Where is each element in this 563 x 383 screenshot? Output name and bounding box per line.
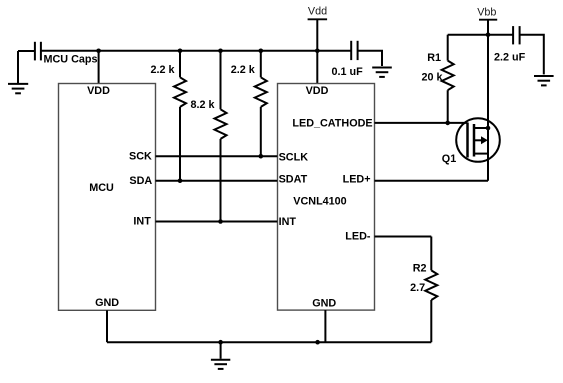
power symbol Vdd (308, 19, 328, 51)
junction dot bus/VCNL (315, 340, 320, 345)
junction dot rail/MCU-VDD (96, 49, 101, 54)
resistor 2.2k (right pull-up) (255, 51, 267, 156)
svg-text:2.2 k: 2.2 k (150, 64, 175, 76)
wire ground to capacitor MCU Caps (18, 50, 35, 52)
capacitor C3 2.2 uF (513, 26, 544, 74)
wire top Vdd rail (41, 50, 351, 52)
svg-text:SCK: SCK (129, 150, 152, 162)
svg-text:GND: GND (95, 297, 119, 309)
wire INT net (156, 221, 278, 223)
ground GND-bottom (211, 342, 230, 369)
svg-text:Q1: Q1 (442, 153, 456, 165)
wire MCU GND drop (106, 310, 108, 342)
ground GND-left (top-left) (8, 51, 28, 93)
junction dot rail/R-2.2k-b (259, 49, 264, 54)
svg-text:SDAT: SDAT (279, 174, 308, 186)
junction dot INT/8.2k (218, 219, 223, 224)
svg-text:SDA: SDA (129, 175, 152, 187)
junction dot Q1 drain stub (486, 126, 491, 131)
svg-text:R1: R1 (427, 52, 441, 64)
junction dot SDA/2.2k (178, 178, 183, 183)
svg-text:LED-: LED- (345, 231, 371, 243)
wire ground bus (107, 341, 431, 343)
junction dot bus/ground-symbol (218, 340, 223, 345)
power symbol Vbb (479, 20, 497, 35)
svg-text:SCLK: SCLK (279, 151, 309, 163)
svg-text:R2: R2 (413, 263, 427, 275)
junction dot rail/Vdd (315, 49, 320, 54)
svg-text:0.1 uF: 0.1 uF (332, 66, 364, 78)
wire Vbb rail (448, 34, 513, 36)
junction dot rail/R-2.2k-a (178, 49, 183, 54)
ground GND-2.2uF (534, 76, 554, 85)
ground GND-0.1uF (372, 68, 392, 77)
wire MCU VDD drop (98, 51, 100, 84)
transistor Q1 (MOSFET) (456, 118, 500, 162)
svg-text:8.2 k: 8.2 k (191, 99, 216, 111)
svg-text:LED_CATHODE: LED_CATHODE (292, 118, 372, 130)
svg-text:MCU Caps: MCU Caps (44, 53, 98, 65)
junction dot Vbb rail (486, 32, 491, 37)
wire LED- net (375, 236, 432, 238)
MCU block U1 (59, 84, 156, 311)
wire VCNL VDD drop (316, 51, 318, 84)
wire VCNL GND drop (324, 310, 326, 342)
svg-text:GND: GND (312, 298, 336, 310)
svg-text:2.2 uF: 2.2 uF (494, 52, 526, 64)
wire LED_CATHODE to gate (375, 122, 468, 124)
resistor 2.2k (left pull-up) (174, 51, 186, 181)
svg-text:2.2 k: 2.2 k (231, 64, 256, 76)
svg-text:INT: INT (133, 216, 151, 228)
svg-text:VDD: VDD (306, 85, 329, 97)
wire SDA net (156, 180, 278, 182)
svg-text:INT: INT (279, 216, 297, 228)
junction dot SCK/2.2k (259, 154, 264, 159)
svg-text:LED+: LED+ (343, 174, 371, 186)
capacitor C1 MCU Caps (35, 42, 41, 61)
svg-text:VDD: VDD (87, 85, 110, 97)
svg-text:VCNL4100: VCNL4100 (293, 195, 346, 207)
wire LED+ net (375, 180, 489, 182)
svg-text:Vbb: Vbb (477, 7, 496, 19)
junction dot R1/gate wire (445, 121, 450, 126)
resistor R1 20 k (442, 35, 454, 123)
wire Vbb trunk through Q1 to LED+ (487, 35, 489, 181)
svg-text:MCU: MCU (89, 182, 114, 194)
resistor 8.2k (middle pull-up) (215, 51, 227, 222)
resistor R2 2.7 (425, 237, 437, 343)
wire SCK net (156, 155, 278, 157)
svg-text:2.7: 2.7 (410, 282, 425, 294)
capacitor C2 0.1 uF (351, 41, 382, 66)
junction dot rail/R-8.2k (218, 49, 223, 54)
VCNL4100 block U2 (278, 84, 375, 311)
svg-text:Vdd: Vdd (308, 5, 327, 17)
svg-text:20 k: 20 k (421, 71, 443, 83)
